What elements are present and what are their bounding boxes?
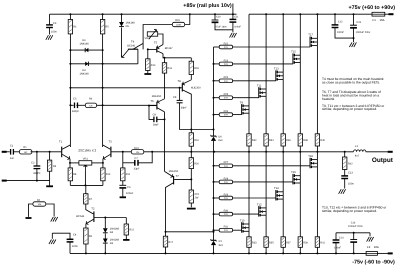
wire current-mirror line to T8 base [69,87,71,89]
capacitor C6 [122,181,124,186]
wire gate feed T14 [233,197,276,199]
wire gate feed T12 [233,213,259,215]
svg-text:C4: C4 [73,234,77,237]
svg-text:Output: Output [372,157,394,164]
svg-text:R42: R42 [348,163,353,166]
resistor R34 [264,134,268,146]
capacitor C1 [10,149,12,155]
svg-text:BC327: BC327 [165,47,173,50]
capacitor C10 [214,13,216,15]
svg-text:47uF 160v: 47uF 160v [215,25,227,28]
capacitor C4 [52,233,70,239]
svg-text:T18: T18 [308,155,313,158]
wire drain column T14 [282,152,284,237]
ground below R14 [144,73,151,75]
svg-text:C16: C16 [351,221,356,224]
fuse F1 [372,12,385,16]
svg-text:8v2: 8v2 [219,244,224,247]
wire drain column T15 [299,14,301,134]
svg-text:27R: 27R [224,181,228,184]
resistor R33 [247,237,251,248]
svg-text:R20: R20 [194,163,199,166]
wire +75v rail [249,13,372,15]
svg-text:1N4148: 1N4148 [79,72,89,75]
svg-text:330pF: 330pF [72,110,80,113]
resistor R19 [189,133,193,146]
svg-text:F1: F1 [373,18,377,22]
svg-text:39pF: 39pF [181,107,187,110]
wire gate feed T17 [233,46,311,48]
svg-text:8v2: 8v2 [218,139,223,142]
wire upper gate rail [213,47,215,136]
svg-text:R35: R35 [269,241,274,244]
svg-text:MJE350: MJE350 [169,170,179,173]
wire drain column T11 [265,14,267,134]
resistor R9 [84,228,88,244]
svg-text:R41: R41 [320,241,325,244]
svg-text:T15: T15 [291,51,296,54]
wire gate feed T16 [233,181,294,183]
svg-text:R14: R14 [151,64,156,67]
svg-text:similar, depending on power re: similar, depending on power required. [322,107,377,111]
resistor R42 zobel [344,151,346,153]
svg-text:1000uF 200v: 1000uF 200v [356,31,371,34]
capacitor C2 [36,152,38,166]
svg-text:10A: 10A [380,18,385,22]
svg-text:F2: F2 [367,245,371,249]
resistor R21 [190,179,192,190]
capacitor C5 [69,104,71,106]
wire R4 column [69,34,71,147]
wire gate feed T9 [233,114,242,116]
terminal -75v [388,252,393,254]
svg-text:100nF: 100nF [334,247,342,250]
resistor R39 [298,237,302,248]
wire lower drive return [166,231,214,233]
resistor R41 [315,237,319,248]
svg-text:1uF: 1uF [10,157,15,160]
svg-text:100uF: 100uF [126,192,134,195]
wire upper gate drive [191,129,213,131]
svg-text:as close as possible to the ou: as close as possible to the output FETs. [322,81,380,85]
terminal input return [2,180,7,182]
wire -75v rail [70,252,366,254]
resistor R35 [264,237,268,248]
wire gate feed T18 [233,165,311,167]
svg-text:T14: T14 [274,187,279,190]
resistor R20 [190,152,192,158]
svg-text:27R: 27R [224,229,228,232]
wire bottom ground bus [336,232,370,234]
svg-text:T7: T7 [176,175,180,178]
svg-text:4u7: 4u7 [355,154,360,157]
svg-text:C6: C6 [127,186,131,189]
svg-text:C5: C5 [73,98,77,101]
trimpot VR2 [147,32,157,36]
wire T6 collector to T7 emitter [164,112,166,171]
wire R6 to T6 base line [102,104,104,106]
svg-text:27R: 27R [224,63,228,66]
resistor R36 [281,134,285,146]
wire R2 right to ground [46,204,54,217]
svg-text:T9: T9 [240,101,244,104]
svg-text:100nF: 100nF [234,25,241,28]
svg-text:C10: C10 [216,16,221,19]
svg-text:1N4148: 1N4148 [79,43,89,46]
svg-text:R11: R11 [126,173,131,176]
svg-text:C8: C8 [173,96,177,99]
svg-text:T2: T2 [91,207,95,210]
resistor R11 [122,151,124,153]
svg-text:T16: T16 [291,171,296,174]
wire gate feed T13 [233,80,276,82]
svg-text:R37: R37 [286,241,291,244]
wiper of VR1 [84,165,86,170]
ground below R21 [187,208,196,210]
svg-text:MJE350: MJE350 [191,86,201,89]
svg-text:100n: 100n [72,245,78,248]
wire lower gate rail [213,152,215,241]
capacitor C11 [232,14,234,19]
svg-text:D3: D3 [110,242,114,245]
svg-text:R36: R36 [286,139,291,142]
svg-text:100n: 100n [348,183,354,186]
resistor R16 [164,58,166,63]
svg-text:D5: D5 [126,25,130,28]
resistor R37 [281,237,285,248]
terminal input signal [2,151,7,153]
svg-text:R10: R10 [106,173,111,176]
svg-text:100n: 100n [51,31,57,34]
resistor R14 [147,48,149,50]
svg-text:100nF: 100nF [337,31,345,34]
svg-text:+85v (rail plus 10v): +85v (rail plus 10v) [183,3,232,9]
svg-text:27R: 27R [224,80,228,83]
svg-text:BC546: BC546 [76,215,84,218]
resistor R10 [102,163,104,168]
fuse F2 [366,252,377,256]
svg-text:C3: C3 [53,22,57,25]
svg-text:-75v (-60 to -90v): -75v (-60 to -90v) [352,259,395,265]
svg-text:R15: R15 [175,19,180,22]
ground below C6 [120,196,126,198]
node +85v feed stub [232,4,234,15]
capacitor C9 [148,105,150,107]
ground below C3 [46,35,49,40]
capacitor C8 [179,87,181,89]
svg-text:R38: R38 [303,139,308,142]
capacitor C12 [334,13,336,15]
svg-text:BC546: BC546 [127,44,135,47]
svg-text:T17: T17 [308,34,313,37]
ground below C10 C11 [230,33,233,38]
svg-text:R17: R17 [168,241,173,244]
wire drain column T9 [248,14,250,134]
svg-text:C15: C15 [356,21,361,24]
svg-text:R34: R34 [269,139,274,142]
svg-text:VR2: VR2 [144,37,150,40]
svg-text:39pF: 39pF [153,124,159,127]
resistor R17 [165,231,167,233]
svg-text:C11: C11 [234,16,239,19]
wire T5 collector to driver resistors [163,54,191,58]
svg-text:MJE350: MJE350 [152,95,162,98]
svg-text:similar, depending on power re: similar, depending on power required. [322,209,377,213]
wire VR2 to T5 emitter [158,34,163,45]
wire R1 to T1 base [31,151,62,153]
wire drain column T18 [316,152,318,237]
svg-text:R40: R40 [320,139,325,142]
wire R5 column [102,34,104,147]
svg-text:T8: T8 [178,80,182,83]
wire drain column T16 [299,152,301,237]
svg-text:R16: R16 [167,67,172,70]
svg-text:T12: T12 [257,203,262,206]
wire drain column T10 [248,152,250,237]
svg-text:33pF: 33pF [134,168,140,171]
resistor R5 [102,13,104,15]
terminal +75v [389,13,394,15]
ground signal ground bar [46,185,53,187]
wire T6 base [149,105,157,107]
ground below R2 right [51,217,54,222]
ground below C12 C15 [349,42,352,47]
capacitor C13 [344,170,346,176]
svg-text:R12: R12 [129,228,134,231]
svg-text:R21: R21 [195,193,200,196]
wire D5 to T4 base [121,28,123,58]
zener D6 [211,135,216,137]
diode D5 [121,13,123,15]
svg-text:27R: 27R [224,46,228,49]
svg-text:C1: C1 [10,145,14,148]
svg-text:27R: 27R [224,97,228,100]
resistor R18 [190,58,192,61]
wire tail join [70,184,103,186]
capacitor C15 [353,13,355,15]
svg-text:T5: T5 [154,41,158,44]
wire output bus [111,151,353,153]
svg-text:C2: C2 [31,162,35,165]
svg-text:27R: 27R [224,114,228,117]
svg-text:120R: 120R [176,24,181,27]
svg-text:C13: C13 [348,172,353,175]
svg-text:2SC1845 X 2: 2SC1845 X 2 [78,148,96,152]
svg-text:R32: R32 [252,139,257,142]
wire gate feed T10 [233,229,242,231]
wire drain column T17 [316,14,318,134]
svg-text:27R: 27R [224,197,228,200]
svg-text:T1: T1 [59,141,63,144]
capacitor C3 [49,14,51,25]
diode D3 [104,233,106,238]
svg-text:R6: R6 [89,98,93,101]
resistor R7 [85,185,87,193]
ground left of C4 [51,233,53,239]
trimpot VR1 [69,162,71,164]
resistor R12 [125,218,127,225]
ground below R12 [123,239,129,241]
svg-text:T10: T10 [240,219,245,222]
svg-text:R18: R18 [194,67,199,70]
svg-text:T6: T6 [150,100,154,103]
diode D4 [104,218,106,229]
svg-text:1000uF 200v: 1000uF 200v [348,225,363,228]
svg-text:C9: C9 [153,113,157,116]
svg-text:C14: C14 [339,236,344,239]
svg-text:+75v (+60 to +90v): +75v (+60 to +90v) [348,5,395,11]
capacitor C7 [123,162,135,164]
svg-text:D4: D4 [110,231,114,234]
wire input return line [6,180,49,182]
svg-text:T3: T3 [109,141,113,144]
resistor R38 [298,134,302,146]
resistor R3 [49,152,51,160]
svg-text:T11: T11 [257,84,262,87]
svg-text:T4: T4 [131,41,135,44]
svg-text:2W: 2W [195,197,199,200]
svg-text:R19: R19 [194,139,199,142]
resistor R40 [315,134,319,146]
wire T7 base junction [213,151,215,153]
resistor R4 [69,13,71,15]
ground bottom right [367,237,370,242]
svg-text:C7: C7 [135,157,139,160]
wire drain column T13 [282,14,284,134]
svg-text:R33: R33 [252,241,257,244]
wire drain column T12 [265,152,267,237]
terminal output [388,151,393,153]
zener D7 [211,239,216,241]
svg-text:27R: 27R [224,165,228,168]
wire T2 base line [94,217,126,219]
svg-text:D7: D7 [219,240,223,243]
diode D2 [69,63,71,65]
svg-text:D6: D6 [218,136,222,139]
wire gate feed T11 [233,97,259,99]
svg-text:T13: T13 [274,68,279,71]
svg-text:heatsink: heatsink [322,97,335,101]
ground below C13 [339,189,342,194]
svg-text:27R: 27R [224,213,228,216]
resistor R8 [69,163,71,168]
svg-text:10A: 10A [374,245,379,249]
resistor R32 [247,134,251,146]
svg-text:VR1: VR1 [83,158,89,161]
resistor R6 [76,104,85,106]
svg-text:C12: C12 [338,20,343,23]
svg-text:R39: R39 [303,241,308,244]
capacitor C14 [335,233,337,240]
wire +85v rail [50,13,237,15]
wire gate feed T15 [233,63,294,65]
ground below R2 left [26,217,32,219]
